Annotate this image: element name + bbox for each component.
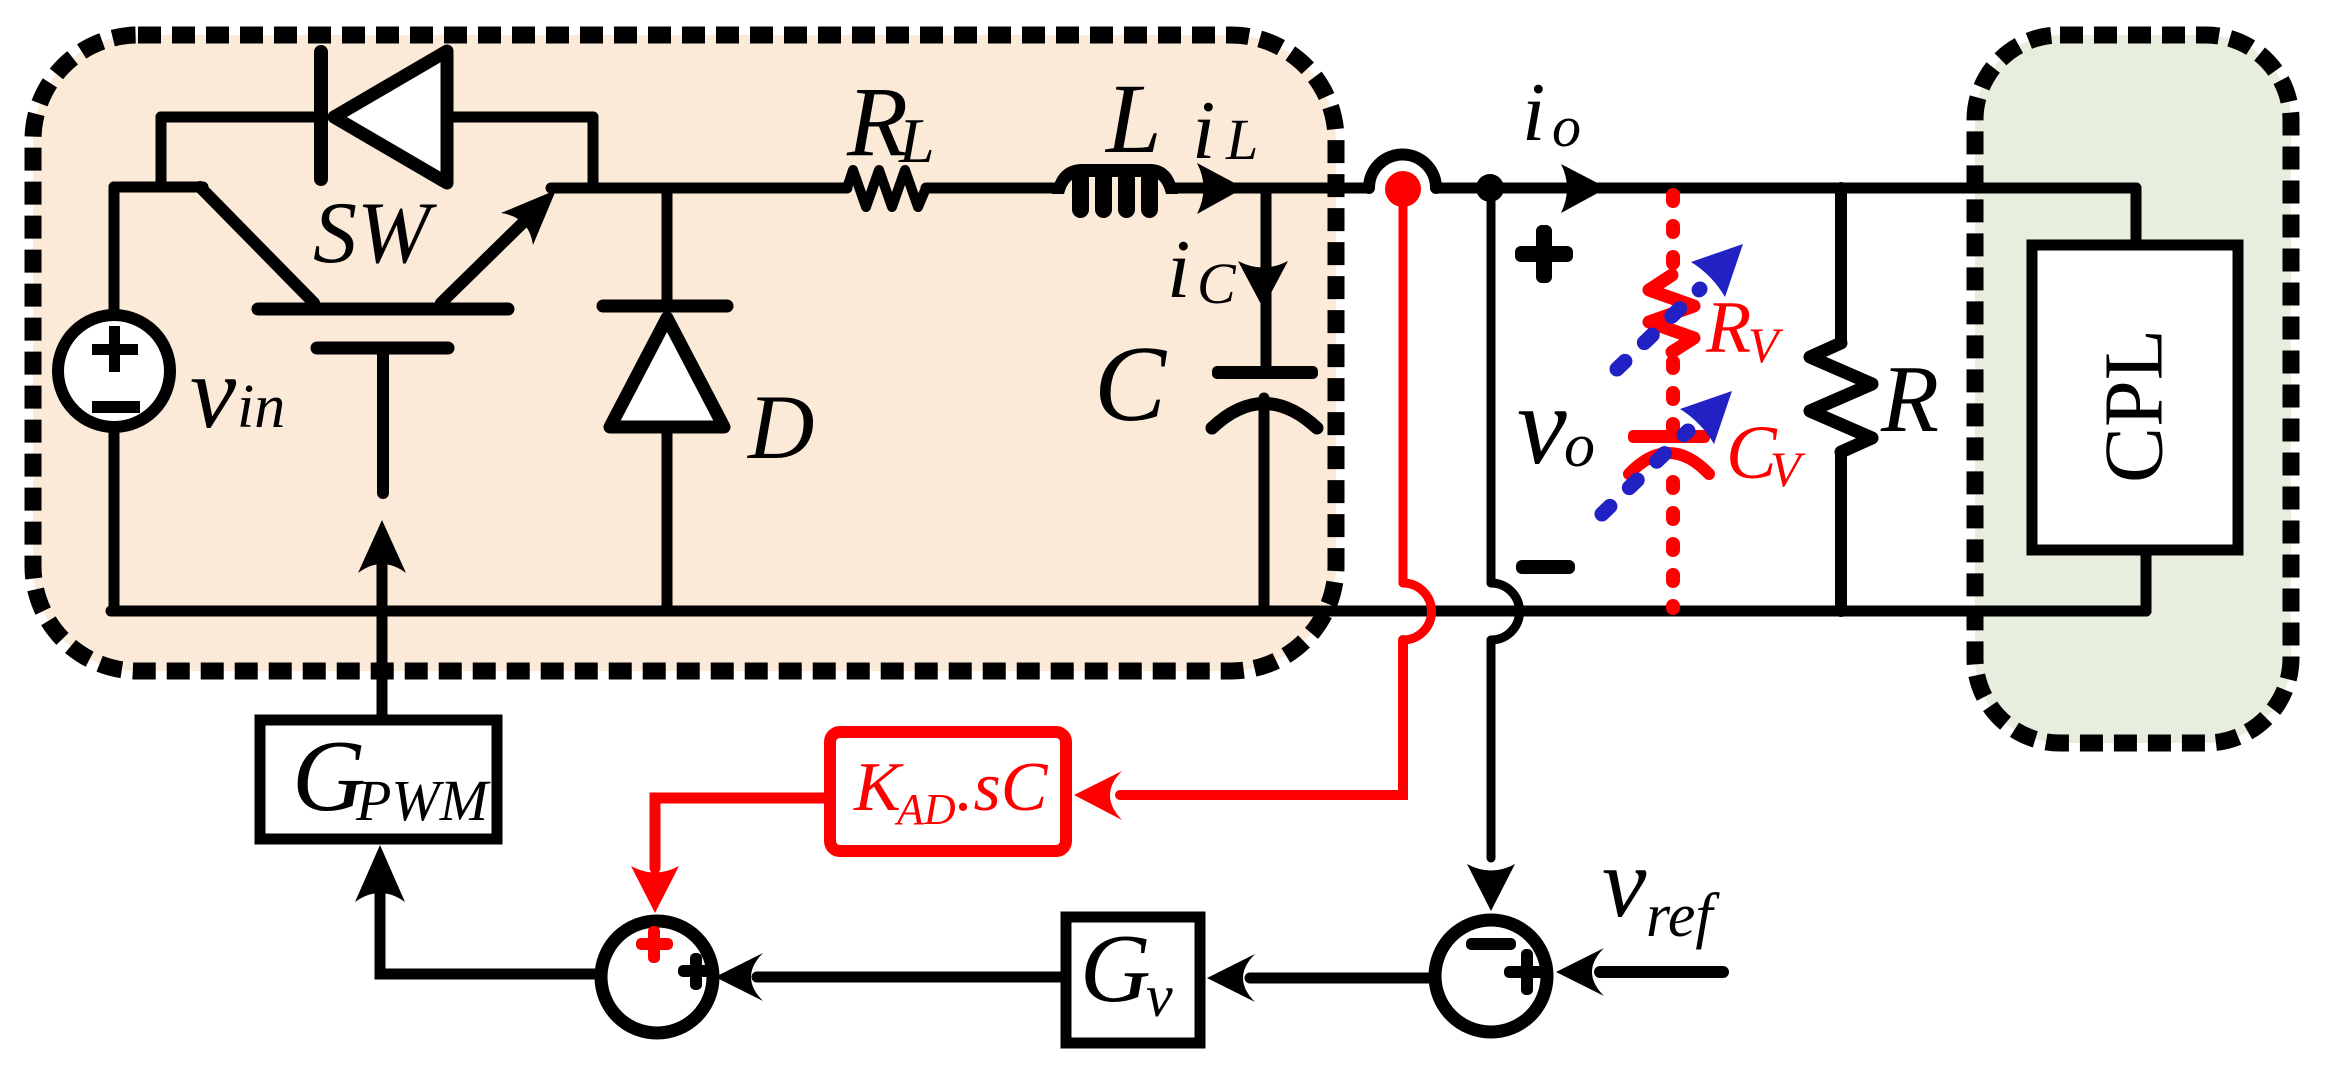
blue tuning arrow through CV [1602,431,1688,514]
svg-text:V: V [1748,317,1784,373]
wire top rail segment 4 [1436,183,2136,194]
svg-text:L: L [898,105,935,176]
svg-text:G: G [292,720,366,833]
svg-text:v: v [1146,963,1173,1029]
svg-text:R: R [1705,287,1751,369]
resistor RL [847,170,926,207]
svg-text:AD: AD [894,785,956,834]
GPWM block [260,720,497,839]
plus in circle 2 [1504,949,1550,995]
label RV [1705,287,1784,373]
svg-text:o: o [1552,94,1581,159]
svg-text:i: i [1192,84,1215,177]
label vo [1517,364,1595,488]
arrowhead into summing circle 2 [1467,864,1515,911]
svg-text:v: v [1517,364,1567,488]
CPL block [2032,245,2238,550]
summing circle 2 [1435,920,1547,1032]
label io [1522,66,1581,159]
diode D branch [662,188,673,611]
inductor L [1052,164,1178,218]
diode D cathode bar [603,300,727,313]
wire top rail segment 2 [926,183,1057,194]
wire below source to bottom rail [109,430,120,611]
svg-text:o: o [1564,412,1595,480]
svg-text:i: i [1522,66,1545,159]
svg-text:v: v [190,335,237,450]
virtual resistor RV [1649,275,1694,352]
anti-parallel diode loop [161,117,593,187]
arrowhead into Gv right [1207,954,1255,1002]
resistor R branch [1835,188,1847,611]
vref input wire [1600,966,1723,978]
svg-text:G: G [1080,915,1151,1023]
label CV [1726,411,1806,497]
svg-text:L: L [1104,63,1162,174]
source vin [58,315,170,427]
CPL box (green dashed) [1975,35,2291,743]
label GPWM [292,720,491,833]
arrow iL on rail [1197,163,1244,214]
transistor SW emitter arrowhead [501,190,556,245]
red arrowhead into KAD block [1074,771,1122,820]
wire top-left horizontal [114,182,203,193]
minus in circle 2 [1466,938,1516,950]
arrowhead into circle 1 right [715,953,763,1001]
svg-text:i: i [1167,223,1190,316]
CPL connection stubs [2136,188,2146,611]
red sense wire to KAD block [1120,205,1432,795]
label iC [1167,223,1237,316]
minus sign vo [1516,560,1575,574]
black plus in circle 1 [678,953,715,990]
label RL [846,66,935,177]
blue tuning arrow through RV [1617,289,1700,369]
red dashed virtual impedance line [1666,195,1680,268]
arrow into GPWM bottom [355,845,405,902]
capacitor C branch [1264,188,1266,611]
svg-text:in: in [237,373,285,441]
label vref [1602,827,1720,950]
arrow iC [1238,261,1288,308]
virtual capacitor CV plates [1628,430,1710,443]
diode (top) triangle [334,51,447,183]
summing circle 1 [601,921,713,1033]
wire left vertical to source [109,187,120,312]
red plus in circle 1 [636,926,673,963]
svg-text:.sC: .sC [956,749,1049,826]
svg-text:R: R [1880,346,1939,452]
KAD.sC block [830,732,1066,851]
label Gv [1080,915,1173,1029]
label iL [1192,84,1258,177]
label KAD.sC [853,749,1049,834]
transistor SW [200,187,540,493]
vo sense wire [1491,195,1520,858]
wire top rail segment 1 [551,183,847,194]
converter box (orange dashed) [33,35,1336,671]
red wire KAD output to circle 1 [655,798,824,868]
capacitor C plates [1212,366,1318,379]
diode D triangle [610,318,724,427]
arrowhead into circle 2 right [1556,948,1604,996]
diode (top) cathode bar [314,52,328,179]
svg-text:ref: ref [1646,882,1720,950]
wire top rail segment 3 [1176,183,1369,194]
wire from summing circle 1 to GPWM [380,893,599,974]
svg-text:PWM: PWM [355,768,491,833]
svg-text:SW: SW [313,185,437,282]
wire Gv to circle 1 [757,972,1060,983]
wire gate drive [377,565,388,714]
svg-text:V: V [1770,441,1806,497]
svg-text:C: C [1197,251,1237,316]
plus sign vo [1515,225,1573,283]
label vin [190,335,285,450]
svg-text:v: v [1602,827,1647,938]
arrow up to SW gate [358,520,406,573]
arrow io on rail [1561,164,1607,213]
wire hump over red node [1369,155,1436,189]
svg-text:CPL: CPL [2087,329,2180,483]
red probe node [1385,171,1421,207]
wire circle 2 to Gv [1250,973,1429,984]
svg-text:L: L [1225,107,1258,172]
svg-text:D: D [746,376,814,478]
svg-text:C: C [1094,325,1168,444]
Gv block [1066,917,1200,1043]
node dot vo sense [1476,174,1504,202]
wire bottom rail [111,606,2146,617]
red arrowhead into circle 1 [631,866,679,913]
resistor R zigzag [1810,343,1872,452]
